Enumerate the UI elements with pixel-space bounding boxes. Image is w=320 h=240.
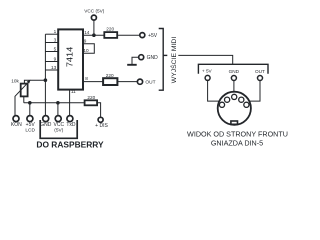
wire R1 to +5V terminal [117,34,140,36]
terminal VCC (raspberry) [55,116,61,122]
wire pin1 [45,33,58,35]
terminal GND (raspberry) [43,116,49,122]
wire pin5 [45,51,58,53]
terminal +5V LCD [27,116,33,122]
wire pin8 to R2 [83,81,103,83]
junction bus / VCC terminal [56,101,60,105]
svg-text:VCC: VCC [54,122,65,128]
bracket middle tick [163,54,167,56]
junction rail / pot top [44,78,48,82]
junction bus / +5V terminal [28,101,32,105]
resistor R3 220 (to +DIS) [85,100,98,105]
bracket WYJSCIE MIDI [159,29,164,91]
svg-text:220: 220 [106,73,114,78]
potentiometer wiper arrow to KON [15,81,29,116]
potentiometer P1 body [21,84,28,97]
wire +5V drop [29,103,31,116]
terminal MIDI GND [139,55,144,60]
terminal VCC(5V) [91,15,96,20]
svg-text:13: 13 [51,65,57,70]
svg-text:8: 8 [85,76,88,81]
resistor R1 220 (to MIDI +5V) [104,32,117,38]
wire unused gate loop pins 9-10 [83,44,94,53]
terminal DIN GND [231,76,236,81]
wire VCC drop [57,103,59,116]
wire DIN +5V to socket [208,81,219,102]
DIN key notch [231,121,238,124]
svg-text:GND: GND [40,122,52,128]
DIN pin upper-left [225,97,230,102]
wire pin9 [45,61,58,63]
DIN pin top [232,94,237,99]
bracket DIN-5 pin labels [198,64,268,74]
DIN pin left [219,102,224,107]
wire R2 to OUT terminal [117,81,137,83]
terminal DIN +5V [205,75,210,80]
ground symbol [127,64,137,66]
svg-text:9: 9 [84,39,87,44]
terminal TxD [67,116,73,122]
terminal KON [13,116,19,122]
wire pin3 [45,42,58,44]
svg-text:+5V: +5V [148,33,158,39]
svg-text:10: 10 [83,48,89,53]
wire pin11 to TxD [69,90,71,116]
DIN-5 socket outline [218,92,251,125]
wire DIN OUT to socket [250,81,260,102]
svg-text:GND: GND [147,55,159,61]
DIN pin upper-right [239,97,244,102]
svg-text:(5V): (5V) [54,128,63,134]
svg-text:OUT: OUT [255,69,265,74]
svg-text:DO RASPBERRY: DO RASPBERRY [36,140,104,150]
svg-text:TxD: TxD [66,122,76,128]
wire R3 to +DIS terminal [97,103,101,117]
wire pot top lead [24,80,45,83]
bracket raspberry group [40,120,77,138]
svg-text:WYJŚCIE MIDI: WYJŚCIE MIDI [169,37,178,84]
junction VCC/pin14 [92,33,96,37]
wire pot bottom to 5V bus [23,96,25,103]
svg-text:1: 1 [54,29,57,34]
svg-text:WIDOK OD STRONY FRONTU: WIDOK OD STRONY FRONTU [187,129,288,138]
svg-text:GND: GND [229,69,240,74]
svg-text:KON: KON [11,122,22,128]
svg-text:VCC (5V): VCC (5V) [84,8,104,13]
svg-text:OUT: OUT [145,80,155,86]
svg-text:10k: 10k [11,79,19,84]
svg-text:220: 220 [106,27,114,32]
wire VCC terminal to pin14 net [93,20,95,35]
wire pin14 to R1 [83,34,104,36]
terminal MIDI OUT [137,79,142,84]
svg-text:5: 5 [54,47,57,52]
svg-text:9: 9 [54,57,57,62]
wire ground rail (tied inputs down to GND terminal) [44,34,46,116]
terminal MIDI +5V [140,33,145,38]
wire GND terminal to ground [132,57,139,65]
svg-text:7414: 7414 [65,47,74,68]
wire DIN GND to socket [233,81,235,92]
wire 5V bus [24,102,85,104]
wire pin13 [45,69,58,71]
terminal +DIS [98,117,103,122]
svg-text:+5V: +5V [26,122,36,128]
IC U1 7414 body [58,29,83,89]
svg-text:+ DIS: + DIS [95,123,108,129]
resistor R2 220 (to MIDI OUT) [103,78,117,85]
svg-text:LCD: LCD [25,128,35,134]
svg-text:220: 220 [87,95,95,100]
terminal DIN OUT [258,76,263,81]
svg-text:14: 14 [84,30,90,35]
svg-text:3: 3 [54,38,57,43]
svg-text:GNIAZDA DIN-5: GNIAZDA DIN-5 [211,139,263,148]
wire MIDI group to DIN-5 labels [178,55,232,64]
svg-text:11: 11 [71,89,76,94]
DIN pin right [244,102,249,107]
svg-text:+ 5V: + 5V [202,69,213,74]
